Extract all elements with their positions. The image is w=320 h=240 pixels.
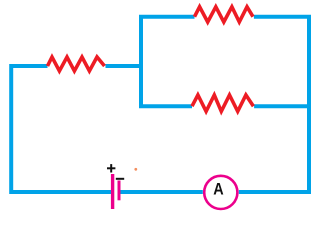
wire: left vertical + bottom-left horizontal + middle-left horizontal xyxy=(11,66,112,192)
ammeter A1 circle xyxy=(204,176,237,209)
wire: middle horizontal right segment (R1 to branch vertical) xyxy=(106,64,144,68)
battery B1 long plate (positive) xyxy=(111,174,114,209)
battery minus sign xyxy=(116,178,124,180)
wire: top branch horizontal left + branch left vertical + bottom branch horizontal left xyxy=(141,17,195,107)
svg-text:A: A xyxy=(213,181,223,199)
battery B1 short plate (negative) xyxy=(118,181,121,201)
resistor R3 xyxy=(192,95,253,111)
battery plus sign xyxy=(107,164,115,172)
wire: bottom branch horizontal right segment (R3 to right vertical) xyxy=(254,104,309,108)
wire: bottom horizontal between battery and ammeter xyxy=(120,190,203,194)
stray orange dot xyxy=(134,168,137,171)
resistor R1 xyxy=(48,57,105,71)
resistor R2 xyxy=(195,7,254,22)
wire: top branch horizontal right + right vertical + bottom horizontal right xyxy=(239,17,309,192)
